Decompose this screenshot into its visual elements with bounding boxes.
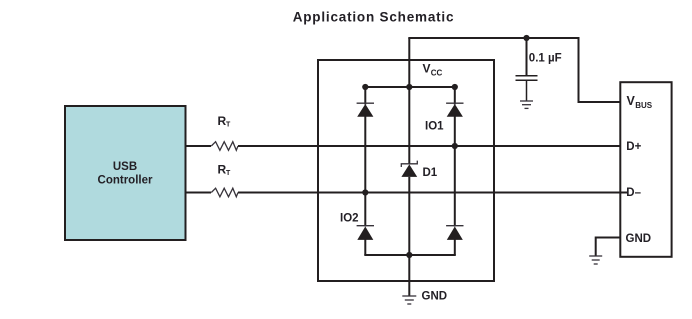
svg-text:T: T — [226, 170, 231, 177]
resistor R2 (RT on D- line) — [211, 163, 238, 197]
node IO2 / D- junction — [362, 189, 368, 195]
wire right branch lower — [454, 240, 456, 256]
wire connector GND — [596, 238, 621, 256]
wire right branch upper — [454, 87, 456, 105]
wire VCC vertical — [408, 38, 410, 164]
wire GND vertical (below D1) — [408, 177, 410, 296]
node VCC rail mid — [406, 84, 412, 90]
label VCC — [423, 62, 443, 78]
svg-text:T: T — [226, 121, 231, 128]
svg-text:USB: USB — [113, 161, 137, 173]
svg-text:GND: GND — [626, 233, 652, 245]
svg-text:V: V — [627, 94, 636, 108]
wire left branch upper — [364, 87, 366, 105]
diode lower-left (GND to IO2) — [357, 226, 374, 240]
zener diode D1 — [401, 161, 438, 179]
wire right branch middle — [454, 116, 456, 226]
USB connector J1 — [620, 82, 671, 257]
svg-text:0.1 µF: 0.1 µF — [529, 53, 562, 65]
wire left branch lower — [364, 240, 366, 256]
resistor R1 (RT on D+ line) — [211, 114, 238, 150]
svg-text:CC: CC — [431, 69, 443, 78]
wire left branch middle — [364, 116, 366, 226]
svg-text:IO1: IO1 — [425, 121, 444, 133]
ground (connector) — [589, 256, 602, 264]
wire D- from R2 to connector — [238, 192, 628, 194]
node VCC rail right — [452, 84, 458, 90]
diode lower-right (GND to IO1) — [446, 226, 463, 240]
svg-text:V: V — [423, 62, 431, 76]
node capacitor tap — [523, 35, 529, 41]
svg-text:D+: D+ — [626, 141, 641, 153]
svg-text:IO2: IO2 — [340, 213, 359, 225]
svg-text:GND: GND — [422, 291, 448, 303]
diode upper-left (IO2 to VCC) — [357, 103, 374, 117]
svg-text:Application Schematic: Application Schematic — [293, 9, 455, 24]
wire VBUS right down — [579, 37, 621, 102]
label VBUS — [627, 94, 653, 110]
wire D+ from USB controller to resistor R1 — [186, 145, 212, 147]
wire VCC top rail — [365, 86, 455, 88]
wire GND bottom rail — [364, 254, 456, 256]
wire D- from USB controller to resistor R2 — [186, 192, 212, 194]
diode upper-right (IO1 to VCC) — [446, 103, 463, 117]
node IO1 / D+ junction — [452, 143, 458, 149]
ground (capacitor) — [520, 101, 533, 108]
svg-text:BUS: BUS — [635, 101, 653, 110]
svg-text:D–: D– — [626, 187, 641, 199]
capacitor C1 0.1uF — [516, 38, 562, 101]
ESD protection IC box U2 — [318, 60, 494, 281]
wire VCC top horizontal — [408, 37, 578, 39]
ground (IC GND) — [402, 296, 416, 304]
svg-text:D1: D1 — [423, 167, 438, 179]
wire D+ from R1 to connector — [238, 145, 620, 147]
USB controller U1 — [65, 106, 186, 240]
node GND rail mid — [406, 252, 412, 258]
svg-text:Controller: Controller — [98, 175, 153, 187]
node VCC rail left — [362, 84, 368, 90]
